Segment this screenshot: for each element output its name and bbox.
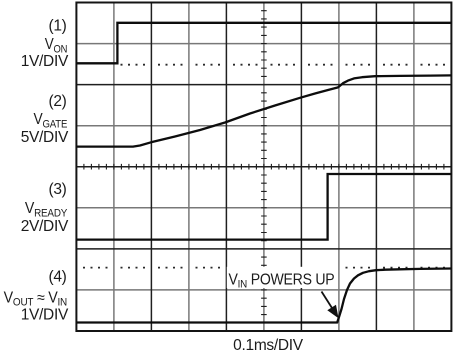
label V_OUT approx V_IN [4, 290, 67, 309]
svg-text:0.1ms/DIV: 0.1ms/DIV [233, 337, 304, 354]
label V_ON [45, 36, 67, 55]
svg-text:(1): (1) [48, 17, 66, 34]
trace 1 reference dotted line [121, 64, 446, 66]
svg-text:5V/DIV: 5V/DIV [21, 129, 69, 146]
svg-text:2V/DIV: 2V/DIV [21, 218, 69, 235]
black major gridlines [76, 3, 451, 332]
center vertical axis ticks [261, 11, 267, 323]
annotation text knockout box [227, 267, 338, 288]
trace 1 V_ON waveform [76, 23, 451, 64]
trace 4 V_OUT waveform [76, 269, 451, 323]
label V_GATE [34, 111, 68, 130]
annotation text V_IN POWERS UP [229, 272, 335, 291]
annotation arrow shaft [322, 292, 333, 309]
trace 2 V_GATE waveform [76, 75, 451, 146]
graticule border [76, 3, 451, 332]
svg-text:(4): (4) [48, 268, 66, 285]
svg-text:1V/DIV: 1V/DIV [21, 53, 69, 70]
trace 3 V_READY waveform [76, 174, 451, 240]
center horizontal axis ticks [84, 164, 444, 170]
svg-text:1V/DIV: 1V/DIV [21, 307, 69, 324]
label V_READY [25, 201, 68, 220]
trace 4 reference dotted line [83, 267, 445, 269]
svg-text:(3): (3) [48, 181, 66, 198]
gray minor gridlines [76, 3, 451, 332]
svg-text:(2): (2) [48, 93, 66, 110]
annotation arrowhead [327, 305, 338, 319]
